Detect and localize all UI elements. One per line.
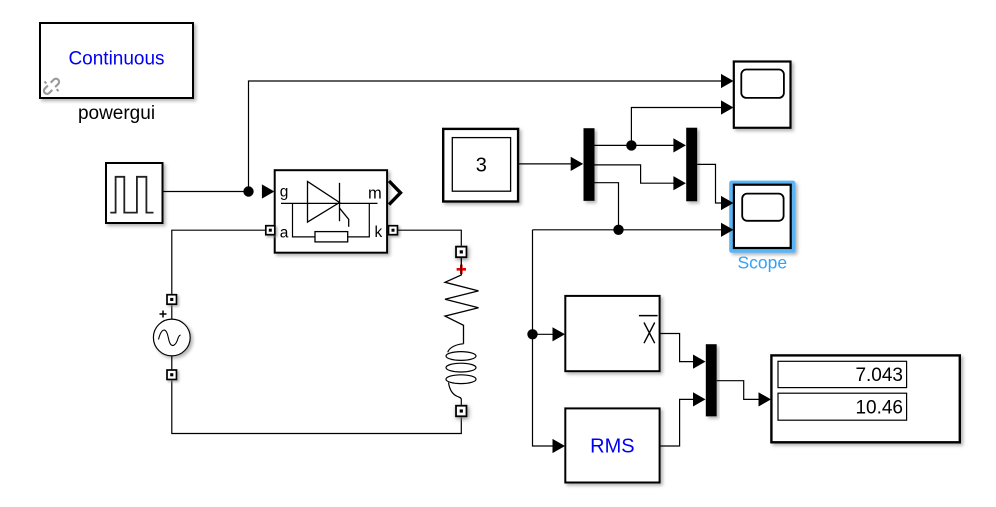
RLC top port square	[456, 247, 467, 258]
wire thyristor a to AC source top	[172, 230, 266, 295]
arrowhead into top scope in2	[721, 100, 734, 114]
AC voltage source	[153, 304, 190, 370]
svg-text:3: 3	[476, 154, 487, 176]
AC source top port square	[167, 295, 177, 305]
powergui block U_powergui	[39, 23, 193, 99]
wire thyristor k to RLC top	[398, 230, 462, 246]
svg-text:g: g	[280, 184, 289, 201]
arrowhead into mux2 in2	[673, 176, 686, 190]
scope block (selected) highlight frame	[729, 181, 795, 253]
svg-text:powergui: powergui	[78, 103, 155, 124]
arrowhead into mean	[553, 327, 566, 341]
wire rms out to mux3 in2	[660, 399, 694, 446]
RLC red plus polarity mark	[457, 265, 466, 274]
demux block	[584, 128, 595, 201]
svg-text:7.043: 7.043	[855, 365, 903, 386]
arrowhead into mux3 in2	[693, 392, 706, 406]
inductor coil	[448, 344, 464, 353]
measurement net: horizontal wire to scope in2	[533, 229, 722, 231]
series RLC branch	[445, 247, 479, 417]
resistor zigzag	[445, 257, 479, 344]
svg-text:RMS: RMS	[590, 436, 634, 458]
wire demux out2 to mux2 in2	[595, 165, 674, 183]
node junction dot on measurement net	[613, 225, 623, 235]
constant block value 3	[443, 129, 518, 202]
display block	[771, 355, 959, 442]
wire demux out3 down to measurement net	[595, 183, 619, 230]
arrowhead into scope in2	[721, 223, 734, 237]
node A junction dot	[243, 186, 253, 196]
wire constant to demux	[518, 163, 571, 165]
arrowhead into scope in1	[721, 196, 734, 210]
wire AC source bottom down and right to RLC bottom	[172, 380, 462, 434]
mean block	[565, 296, 659, 371]
wire tap to mean input	[533, 333, 554, 335]
thyristor m output chevron	[389, 181, 401, 205]
svg-text:Scope: Scope	[737, 253, 787, 273]
top scope block	[734, 62, 791, 128]
thyristor a port square	[266, 226, 275, 235]
svg-text:m: m	[368, 184, 382, 202]
svg-text:10.46: 10.46	[855, 398, 903, 419]
node junction dot mean tap	[527, 329, 537, 339]
arrowhead into top scope in1	[721, 74, 734, 88]
wire junction A up and across to top scope in1	[249, 81, 722, 192]
thyristor k port square	[389, 226, 398, 235]
wire mux3 out to display	[717, 381, 759, 400]
arrowhead into mux3 in1	[693, 355, 706, 369]
svg-text:Continuous: Continuous	[68, 49, 164, 70]
rms block	[565, 408, 659, 482]
arrowhead into thyristor g	[262, 184, 275, 198]
arrowhead into display	[759, 392, 772, 406]
arrowhead into demux	[571, 157, 584, 171]
svg-text:a: a	[280, 225, 289, 242]
wire mean out to mux3 in1	[660, 334, 694, 362]
svg-text:k: k	[375, 224, 383, 241]
node junction dot demux out1	[626, 140, 636, 150]
AC source bottom port square	[167, 370, 177, 380]
scope block	[734, 185, 791, 248]
mux2 block	[686, 128, 697, 202]
wire demux out1 to mux2 in1	[595, 144, 674, 146]
wire branch up to top scope in2	[631, 108, 721, 146]
wire measurement net down to mean and rms	[533, 230, 554, 446]
wire mux2 out to scope in1	[697, 164, 721, 203]
arrowhead into rms	[553, 439, 566, 453]
mux3 block	[706, 344, 717, 416]
RLC bottom port square	[456, 406, 467, 417]
wire pulse-out to junction A	[163, 191, 249, 193]
pulse generator block	[106, 163, 163, 223]
arrowhead into mux2 in1	[673, 138, 686, 152]
thyristor block U_thyristor	[275, 170, 387, 253]
